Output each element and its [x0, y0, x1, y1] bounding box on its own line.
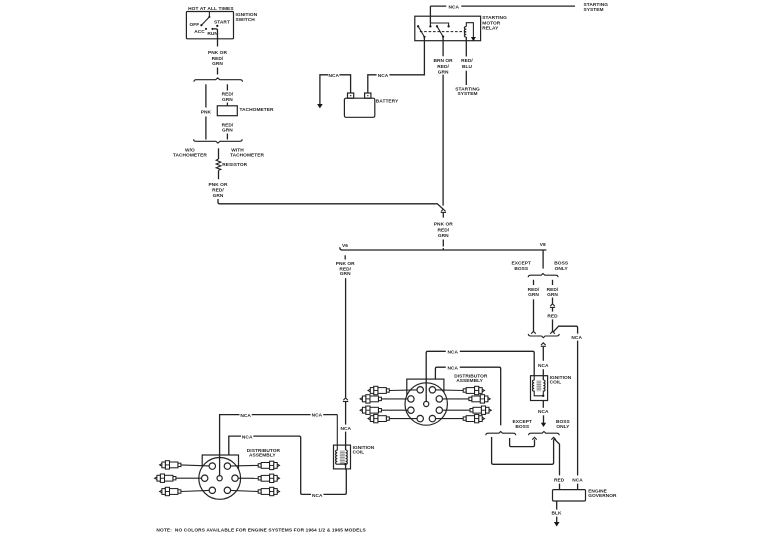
battery: [344, 98, 374, 117]
wire NCA dist center to coil (upper): [426, 351, 534, 404]
V6 distributor circle: [199, 458, 241, 500]
svg-text:ASSEMBLY: ASSEMBLY: [456, 378, 483, 384]
relay switch 2 contact dot: [436, 25, 438, 27]
wire NCA into governor: [577, 484, 579, 490]
svg-text:NCA: NCA: [240, 413, 251, 419]
lever tip dot: [208, 16, 210, 18]
end arrowhead (except boss): [531, 331, 536, 333]
svg-text:BOSS: BOSS: [515, 424, 530, 430]
relay switch 1 lever dot: [423, 36, 425, 38]
brace opening (V8 split): [528, 274, 558, 278]
plug wire right 3: [227, 490, 258, 491]
ground arrow (battery): [317, 104, 323, 108]
svg-text:BOSS: BOSS: [514, 266, 529, 272]
switch lever: [201, 17, 209, 25]
V6 satellite contact 4: [232, 475, 238, 481]
plug wire right 1: [227, 464, 258, 467]
bus wire V6/V8: [340, 247, 547, 250]
svg-text:GRN: GRN: [212, 61, 223, 67]
SECTION: note: [156, 528, 366, 534]
svg-text:RUN: RUN: [207, 31, 218, 37]
wire dash below bus (V6): [344, 255, 346, 259]
svg-text:OFF: OFF: [190, 22, 200, 28]
plug wire left 2: [381, 398, 411, 400]
svg-text:RELAY: RELAY: [482, 25, 499, 31]
plug wire left 2: [176, 477, 205, 479]
down arrowhead: [541, 423, 546, 427]
svg-text:EXCEPT: EXCEPT: [512, 261, 532, 267]
relay switch 1 contact dot: [417, 25, 419, 27]
svg-text:ACC: ACC: [194, 29, 205, 35]
svg-text:RESISTOR: RESISTOR: [222, 162, 247, 168]
plug wire left 3: [381, 409, 411, 411]
svg-text:WITH: WITH: [231, 147, 244, 153]
svg-text:GRN: GRN: [438, 69, 449, 75]
V6 distributor cap rect: [202, 455, 238, 475]
starting motor relay box: [415, 16, 481, 41]
wire NCA dist center to coil (upper): [220, 415, 338, 479]
brace opening (tach split): [194, 78, 243, 82]
ACC contact dot: [205, 28, 207, 30]
wire tap to NCA (governor feed): [553, 326, 578, 475]
wire V8 drop from bus: [542, 250, 544, 269]
V8 satellite contact 2: [429, 387, 435, 393]
RUN contact dot: [211, 28, 213, 30]
switch feed from box top: [208, 12, 210, 17]
wire dash 2 (boss only): [552, 298, 554, 304]
bracket left dot: [429, 25, 431, 27]
connector bar: [343, 401, 348, 403]
svg-text:STARTING: STARTING: [482, 15, 507, 21]
V8 coil junction dot: [542, 395, 544, 397]
V6 ignition coil box: [334, 445, 351, 469]
wire NCA drop into relay: [429, 6, 431, 23]
wire with down arrow to boss-only brace: [543, 415, 545, 423]
svg-text:RED/: RED/: [212, 188, 224, 194]
V8 rotor center wire overlay: [425, 379, 427, 404]
svg-text:RED/: RED/: [222, 92, 234, 98]
svg-text:GRN: GRN: [222, 97, 233, 103]
V8 satellite contact 1: [417, 387, 423, 393]
svg-text:TACHOMETER: TACHOMETER: [173, 152, 207, 158]
wire RED/BLU from coil: [465, 37, 467, 85]
plug wire left 1: [389, 389, 420, 392]
svg-text:PNK OR: PNK OR: [209, 182, 228, 188]
svg-text:RED/: RED/: [528, 287, 540, 293]
spark plug L2: [155, 474, 176, 482]
svg-text:PNK OR: PNK OR: [434, 222, 453, 228]
V6 satellite contact 6: [224, 487, 230, 493]
svg-text:RED: RED: [554, 478, 565, 484]
V8 ignition coil box: [531, 376, 548, 401]
V8 coil core (hatched): [537, 380, 542, 391]
V6 coil junction dot: [344, 463, 346, 465]
svg-text:RED/: RED/: [437, 228, 449, 234]
small U wire: [510, 438, 535, 447]
svg-text:GRN: GRN: [213, 193, 224, 199]
svg-text:ASSEMBLY: ASSEMBLY: [249, 453, 276, 459]
svg-text:NCA: NCA: [538, 363, 549, 369]
svg-text:SWITCH: SWITCH: [236, 17, 256, 23]
battery left terminal: [348, 93, 354, 98]
wire NCA cap to except-boss (lower): [435, 367, 500, 425]
wire dash to bus: [442, 240, 444, 251]
svg-text:GRN: GRN: [438, 233, 449, 239]
V8 coil right winding: [543, 380, 545, 396]
V8 distributor circle: [405, 383, 447, 425]
svg-text:NOTE: NO COLORS AVAILABLE FOR: NOTE: NO COLORS AVAILABLE FOR ENGINE SYS…: [156, 528, 366, 534]
svg-text:BLU: BLU: [462, 64, 472, 70]
svg-text:NCA: NCA: [242, 434, 253, 440]
relay switch 1 lever: [418, 26, 424, 37]
spark plug R2: [469, 395, 490, 403]
brace closing (tach merge): [194, 139, 243, 143]
svg-text:RED/: RED/: [437, 64, 449, 70]
V6 rotor center circle: [217, 476, 222, 481]
wire short seg to tach box: [226, 103, 228, 106]
svg-text:NCA: NCA: [449, 4, 460, 10]
spark plug R2: [258, 474, 279, 482]
svg-text:PNK OR: PNK OR: [336, 261, 355, 267]
wire RED into governor: [559, 484, 561, 490]
connector bar: [550, 306, 555, 308]
svg-text:NCA: NCA: [329, 73, 340, 79]
tachometer box: [217, 106, 237, 116]
SECTION: V6 branch: [155, 255, 375, 499]
wire below resistor: [218, 170, 220, 179]
battery right terminal mark: [367, 95, 368, 96]
connector arrow (coil feed): [541, 343, 546, 345]
svg-text:V8: V8: [540, 242, 546, 248]
relay coil top hook: [466, 23, 473, 39]
big U wire: [492, 437, 554, 464]
wire V6 feed down: [345, 278, 347, 398]
plug wire right 4: [432, 418, 463, 420]
V8 satellite contact 7: [417, 415, 423, 421]
wire dash (except boss): [533, 280, 535, 285]
connector bar at junction: [441, 211, 446, 213]
V8 satellite contact 5: [408, 407, 414, 413]
connector arrow at junction: [441, 209, 446, 211]
svg-text:ONLY: ONLY: [556, 424, 570, 430]
wire tap to governor RED: [554, 439, 560, 476]
svg-text:NCA: NCA: [571, 335, 582, 341]
svg-text:ONLY: ONLY: [555, 266, 569, 272]
svg-text:NCA: NCA: [572, 478, 583, 484]
svg-text:MOTOR: MOTOR: [482, 20, 501, 26]
connector bar: [541, 345, 546, 347]
connector arrow (V6 coil feed): [343, 398, 348, 400]
spark plug R1: [258, 461, 279, 469]
svg-text:NCA: NCA: [312, 413, 323, 419]
svg-text:COIL: COIL: [353, 450, 365, 456]
V8 coil left wire with winding: [532, 376, 543, 396]
svg-text:V6: V6: [342, 243, 348, 249]
connector arrow (boss only): [550, 304, 555, 306]
svg-text:NCA: NCA: [378, 73, 389, 79]
connector arrowhead (small U right): [532, 437, 537, 439]
spark plug L4: [368, 414, 389, 422]
brace closing (V8 merge): [528, 334, 559, 338]
V8 distributor cap rect: [407, 379, 444, 401]
SECTION: V8 branch: [360, 250, 582, 475]
svg-text:W/O: W/O: [185, 147, 195, 153]
svg-text:NCA: NCA: [312, 493, 323, 499]
svg-text:GOVERNOR: GOVERNOR: [588, 493, 617, 499]
spark plug L3: [160, 487, 181, 495]
plug wire right 1: [432, 389, 463, 392]
engine governor box: [553, 490, 586, 501]
svg-text:NCA: NCA: [341, 426, 352, 432]
plug wire left 4: [389, 418, 420, 420]
wire BRN OR RED/GRN from relay: [442, 37, 444, 206]
svg-text:BRN OR: BRN OR: [433, 58, 453, 64]
plug wire right 2: [439, 398, 469, 400]
START contact dot: [216, 25, 218, 27]
svg-text:PNK: PNK: [201, 110, 212, 116]
wire dash below tach: [226, 134, 228, 140]
wire dash (boss only): [552, 280, 554, 285]
V8 satellite contact 3: [408, 396, 414, 402]
battery left terminal mark: [350, 95, 352, 96]
svg-text:NCA: NCA: [538, 409, 549, 415]
spark plug L2: [360, 395, 381, 403]
svg-text:START: START: [214, 20, 230, 26]
wire to NCA label: [542, 347, 544, 361]
svg-text:RED/: RED/: [212, 56, 224, 62]
wire PNK upper segment: [205, 84, 207, 107]
svg-text:TACHOMETER: TACHOMETER: [230, 152, 264, 158]
wire to NCA label: [345, 402, 347, 425]
spark plug L1: [368, 386, 389, 394]
svg-text:TACHOMETER: TACHOMETER: [240, 107, 274, 113]
relay linkage (dashed): [420, 31, 466, 33]
spark plug L1: [160, 461, 181, 469]
SECTION: governor: [551, 478, 617, 527]
V6 satellite contact 2: [224, 463, 230, 469]
svg-text:BLK: BLK: [551, 510, 561, 516]
wire below junction connector: [442, 213, 444, 218]
wire NCA battery to relay: [368, 37, 425, 93]
spark plug R3: [470, 406, 491, 414]
wire into coil box: [542, 369, 544, 380]
svg-text:NCA: NCA: [448, 365, 459, 371]
V6 satellite contact 3: [202, 475, 208, 481]
svg-text:RED: RED: [547, 313, 558, 319]
brace boss-only (lower): [529, 432, 560, 436]
relay switch 2 lever: [437, 26, 443, 36]
SECTION: tachometer branch: [173, 78, 443, 209]
wire boss-only down: [552, 319, 554, 331]
brace except-boss (lower): [486, 432, 516, 436]
SECTION: battery and relay: [317, 2, 608, 205]
V8 satellite contact 4: [436, 396, 442, 402]
svg-text:COIL: COIL: [550, 379, 562, 385]
V6 coil right winding: [346, 450, 348, 464]
V6 coil left wire with winding: [336, 415, 346, 465]
svg-text:PNK OR: PNK OR: [208, 50, 227, 56]
spark plug R4: [463, 414, 484, 422]
V6 rotor center wire overlay: [219, 455, 221, 478]
SECTION: ignition switch (top left): [186, 6, 257, 75]
wire except-boss down: [533, 299, 535, 331]
relay feed bracket: [430, 23, 448, 26]
svg-text:GRN: GRN: [222, 128, 233, 134]
wire brace to resistor: [218, 148, 220, 159]
svg-text:GRN: GRN: [547, 292, 558, 298]
svg-text:GRN: GRN: [528, 292, 539, 298]
wire coil bottom through box: [345, 464, 348, 470]
wire NCA battery to ground: [320, 75, 351, 104]
svg-text:BATTERY: BATTERY: [376, 98, 399, 104]
V6 satellite contact 1: [209, 463, 215, 469]
wire below coil: [542, 401, 544, 408]
wire to ground: [556, 517, 558, 523]
wire BLK below governor: [556, 501, 558, 510]
svg-text:RED/: RED/: [547, 287, 559, 293]
V6 satellite contact 5: [209, 487, 215, 493]
end arrowhead (boss only): [550, 331, 555, 333]
svg-text:NCA: NCA: [448, 350, 459, 356]
wire to junction (down, right, diagonal): [218, 199, 443, 209]
V6 coil core (hatched): [340, 450, 345, 464]
plug wire left 1: [181, 465, 212, 466]
svg-text:SYSTEM: SYSTEM: [457, 91, 477, 97]
wire into coil box: [345, 432, 347, 450]
lever pivot dot: [200, 24, 202, 26]
wire stub below connector: [552, 308, 554, 312]
spark plug R1: [463, 386, 484, 394]
wire PNK lower segment: [205, 117, 207, 140]
svg-text:BOSS: BOSS: [554, 261, 569, 267]
svg-text:RED/: RED/: [461, 58, 473, 64]
ignition switch box: [186, 12, 233, 39]
wire dash to brace: [217, 68, 219, 75]
wire RED/GRN dash above tach: [226, 84, 228, 90]
svg-text:RED/: RED/: [222, 122, 234, 128]
relay coil ground arrow: [471, 37, 476, 41]
relay coil winding: [464, 27, 466, 37]
battery right terminal: [365, 93, 371, 98]
V8 satellite contact 8: [429, 415, 435, 421]
resistor zigzag: [216, 159, 221, 170]
svg-text:GRN: GRN: [340, 271, 351, 277]
spark plug R3: [258, 487, 279, 495]
V8 satellite contact 6: [436, 407, 442, 413]
plug wire right 3: [439, 409, 470, 411]
wire NCA cap to coil bottom (lower): [229, 436, 346, 494]
wire from RUN contact down: [213, 29, 218, 47]
bracket right dot: [447, 25, 449, 27]
connector arrowhead (big U right): [551, 437, 556, 439]
plug wire right 2: [235, 477, 258, 479]
wire NCA to starting system (top): [430, 5, 575, 7]
ground arrow (BLK): [554, 522, 560, 527]
svg-text:SYSTEM: SYSTEM: [584, 7, 604, 13]
plug wire left 3: [181, 490, 212, 491]
relay switch 2 lever dot: [442, 35, 444, 37]
V8 rotor center circle: [424, 401, 429, 406]
spark plug L3: [360, 406, 381, 414]
SECTION: junction and bus: [340, 209, 547, 250]
